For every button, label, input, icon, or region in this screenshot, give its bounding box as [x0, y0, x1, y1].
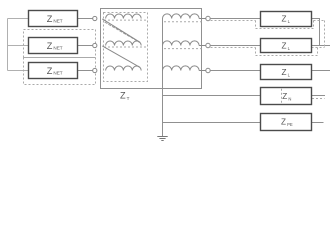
svg-text:Z: Z [282, 92, 287, 101]
svg-text:Z: Z [47, 41, 53, 51]
svg-text:Z: Z [120, 91, 126, 101]
svg-text:T: T [127, 96, 130, 101]
svg-text:Z: Z [47, 14, 53, 24]
svg-text:NET: NET [53, 71, 62, 76]
svg-text:PE: PE [287, 122, 293, 127]
svg-text:Z: Z [282, 42, 287, 51]
svg-text:NET: NET [53, 19, 62, 24]
svg-text:NET: NET [53, 46, 62, 51]
svg-text:Z: Z [281, 118, 286, 127]
svg-text:Z: Z [47, 66, 53, 76]
svg-text:N: N [288, 96, 291, 101]
svg-text:Z: Z [282, 68, 287, 77]
svg-text:Z: Z [282, 15, 287, 24]
